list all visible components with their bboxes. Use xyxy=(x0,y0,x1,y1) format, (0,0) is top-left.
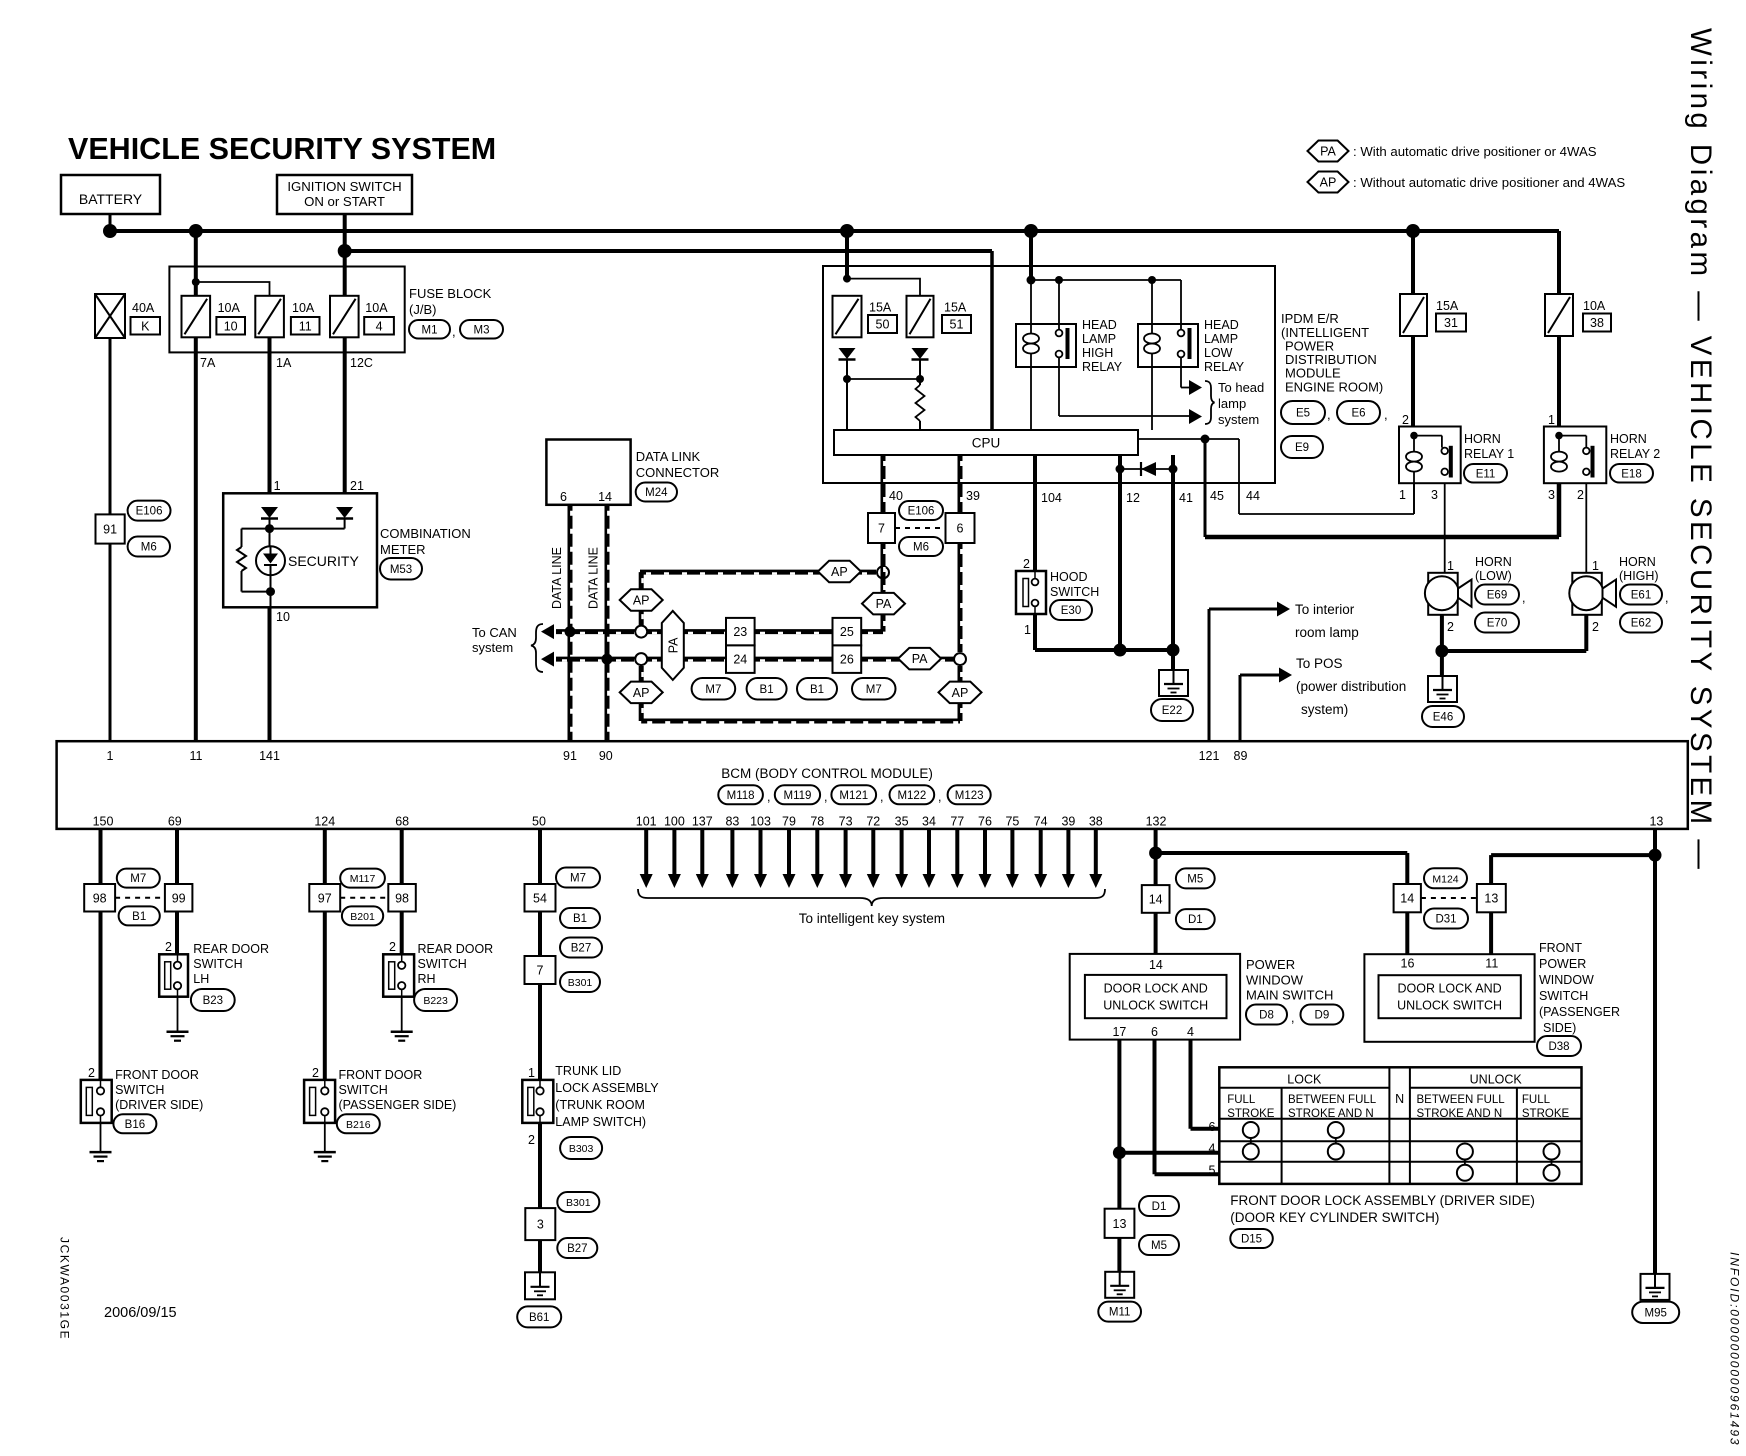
svg-text:RH: RH xyxy=(418,972,436,986)
svg-text:BCM (BODY CONTROL MODULE): BCM (BODY CONTROL MODULE) xyxy=(721,766,933,781)
svg-text:FUSE BLOCK: FUSE BLOCK xyxy=(409,286,492,301)
svg-text:D1: D1 xyxy=(1188,914,1203,926)
svg-text:system: system xyxy=(472,640,513,655)
svg-text:91: 91 xyxy=(563,749,577,763)
svg-text:DATA LINE: DATA LINE xyxy=(550,547,564,609)
svg-text:,: , xyxy=(1384,407,1388,422)
svg-text:1: 1 xyxy=(1548,413,1555,427)
svg-text:D8: D8 xyxy=(1259,1010,1274,1022)
svg-text:,: , xyxy=(1665,591,1668,605)
svg-text:ENGINE ROOM): ENGINE ROOM) xyxy=(1285,380,1383,395)
svg-text:LAMP: LAMP xyxy=(1082,332,1116,346)
svg-text:HORN: HORN xyxy=(1610,432,1647,446)
svg-text:E11: E11 xyxy=(1476,468,1496,480)
svg-text:(LOW): (LOW) xyxy=(1475,569,1512,583)
svg-text:AP: AP xyxy=(633,686,650,700)
svg-text:50: 50 xyxy=(532,815,546,829)
svg-text:N: N xyxy=(1395,1092,1404,1106)
svg-text:B216: B216 xyxy=(346,1119,371,1131)
svg-text:103: 103 xyxy=(750,815,771,829)
svg-text:,: , xyxy=(1291,1011,1294,1025)
svg-text:B1: B1 xyxy=(573,913,587,925)
svg-text:2: 2 xyxy=(1447,620,1454,634)
svg-text:COMBINATION: COMBINATION xyxy=(380,526,471,541)
svg-text:BATTERY: BATTERY xyxy=(79,191,143,207)
svg-text:E5: E5 xyxy=(1296,408,1310,420)
svg-text:lamp: lamp xyxy=(1218,396,1246,411)
svg-text:K: K xyxy=(141,319,150,333)
svg-text:SWITCH: SWITCH xyxy=(418,957,467,971)
svg-text:13: 13 xyxy=(1484,892,1498,906)
svg-text:UNLOCK: UNLOCK xyxy=(1470,1073,1523,1087)
svg-text:B1: B1 xyxy=(132,911,146,923)
svg-text:E9: E9 xyxy=(1295,442,1309,454)
svg-text:1A: 1A xyxy=(276,356,292,370)
svg-text:14: 14 xyxy=(1149,892,1163,906)
svg-text:10: 10 xyxy=(224,319,238,333)
svg-text:DATA LINK: DATA LINK xyxy=(636,449,701,464)
svg-text:2: 2 xyxy=(88,1066,95,1080)
svg-text:To intelligent key system: To intelligent key system xyxy=(799,911,945,926)
svg-text:B303: B303 xyxy=(569,1143,594,1155)
svg-text:WINDOW: WINDOW xyxy=(1539,973,1594,987)
svg-text:D9: D9 xyxy=(1315,1010,1330,1022)
svg-text:FRONT: FRONT xyxy=(1539,941,1582,955)
svg-text:50: 50 xyxy=(876,318,890,332)
svg-text:14: 14 xyxy=(1149,958,1163,972)
svg-text:40: 40 xyxy=(889,489,903,503)
svg-text:To POS: To POS xyxy=(1296,656,1343,671)
svg-text:(DRIVER SIDE): (DRIVER SIDE) xyxy=(115,1098,203,1112)
svg-text:M7: M7 xyxy=(570,873,586,885)
svg-text:31: 31 xyxy=(1444,316,1458,330)
svg-text:AP: AP xyxy=(633,594,650,608)
svg-text:,: , xyxy=(880,790,883,804)
svg-text:B27: B27 xyxy=(571,943,591,955)
svg-text:68: 68 xyxy=(395,815,409,829)
svg-text:B23: B23 xyxy=(203,995,223,1007)
svg-text:M119: M119 xyxy=(783,790,811,802)
svg-text:RELAY: RELAY xyxy=(1204,360,1245,374)
svg-text:98: 98 xyxy=(93,891,107,905)
svg-text:M6: M6 xyxy=(141,542,157,554)
svg-text:(J/B): (J/B) xyxy=(409,302,436,317)
svg-text:SWITCH: SWITCH xyxy=(1539,989,1588,1003)
svg-text:: Without automatic drive posi: : Without automatic drive positioner and… xyxy=(1353,175,1625,190)
svg-text:HEAD: HEAD xyxy=(1082,318,1117,332)
svg-text:(power distribution: (power distribution xyxy=(1296,679,1406,694)
svg-text:2: 2 xyxy=(165,940,172,954)
svg-text:,: , xyxy=(1522,591,1525,605)
svg-text:UNLOCK SWITCH: UNLOCK SWITCH xyxy=(1103,999,1208,1013)
svg-text:15A: 15A xyxy=(944,301,967,315)
svg-text:2: 2 xyxy=(389,940,396,954)
svg-text:141: 141 xyxy=(259,749,280,763)
svg-text:To interior: To interior xyxy=(1295,602,1355,617)
svg-text:AP: AP xyxy=(952,686,969,700)
svg-text:10A: 10A xyxy=(292,301,315,315)
svg-text:WINDOW: WINDOW xyxy=(1246,973,1304,988)
svg-text:M6: M6 xyxy=(913,542,929,554)
svg-text:2: 2 xyxy=(528,1133,535,1147)
svg-text:M124: M124 xyxy=(1432,873,1458,885)
svg-text:REAR DOOR: REAR DOOR xyxy=(418,942,494,956)
svg-text:SECURITY: SECURITY xyxy=(288,553,359,569)
svg-text:90: 90 xyxy=(599,749,613,763)
svg-text:23: 23 xyxy=(733,625,747,639)
svg-text:M7: M7 xyxy=(705,684,721,696)
svg-text:M95: M95 xyxy=(1645,1307,1667,1319)
svg-text:7: 7 xyxy=(878,522,885,536)
svg-text:10A: 10A xyxy=(365,301,388,315)
svg-text:LAMP SWITCH): LAMP SWITCH) xyxy=(555,1115,646,1129)
svg-text:12C: 12C xyxy=(350,356,373,370)
svg-text:To head: To head xyxy=(1218,380,1264,395)
svg-text:3: 3 xyxy=(1548,488,1555,502)
svg-text:HORN: HORN xyxy=(1464,432,1501,446)
svg-text:M123: M123 xyxy=(955,790,984,802)
svg-text:2: 2 xyxy=(1577,488,1584,502)
svg-text:D38: D38 xyxy=(1548,1041,1569,1053)
svg-text:PA: PA xyxy=(876,597,892,611)
svg-text:11: 11 xyxy=(190,749,203,763)
svg-text:POWER: POWER xyxy=(1246,957,1295,972)
svg-text:,: , xyxy=(938,790,941,804)
svg-text:10A: 10A xyxy=(218,301,241,315)
svg-text:MODULE: MODULE xyxy=(1285,366,1341,381)
svg-text:13: 13 xyxy=(1113,1217,1127,1231)
svg-text:HEAD: HEAD xyxy=(1204,318,1239,332)
svg-text:,: , xyxy=(824,790,827,804)
svg-text:6: 6 xyxy=(1209,1120,1216,1134)
svg-text:B301: B301 xyxy=(566,1197,591,1209)
svg-text:,: , xyxy=(767,790,770,804)
svg-text:21: 21 xyxy=(350,479,364,493)
svg-text:MAIN SWITCH: MAIN SWITCH xyxy=(1246,988,1333,1003)
svg-text:B301: B301 xyxy=(568,977,593,989)
svg-text:M118: M118 xyxy=(727,790,755,802)
svg-text:132: 132 xyxy=(1146,815,1167,829)
svg-text:HORN: HORN xyxy=(1475,555,1512,569)
svg-text:38: 38 xyxy=(1590,316,1604,330)
svg-text:M5: M5 xyxy=(1187,873,1203,885)
svg-text:DATA LINE: DATA LINE xyxy=(587,547,601,609)
svg-text:1: 1 xyxy=(274,479,281,493)
svg-text:78: 78 xyxy=(810,815,824,829)
svg-text:CPU: CPU xyxy=(972,436,1001,451)
svg-text:B61: B61 xyxy=(529,1312,549,1324)
svg-text:76: 76 xyxy=(978,815,992,829)
svg-text:D15: D15 xyxy=(1241,1234,1262,1246)
svg-text:LOW: LOW xyxy=(1204,346,1233,360)
svg-text:25: 25 xyxy=(840,625,854,639)
svg-text:LOCK: LOCK xyxy=(1287,1073,1322,1087)
svg-text:JCKWA0031GE: JCKWA0031GE xyxy=(58,1237,72,1340)
svg-text:97: 97 xyxy=(318,891,332,905)
svg-text:15A: 15A xyxy=(1436,299,1459,313)
svg-text:STROKE AND N: STROKE AND N xyxy=(1288,1108,1374,1120)
svg-text:SWITCH: SWITCH xyxy=(193,957,242,971)
svg-text:1: 1 xyxy=(1447,559,1454,573)
svg-text:LOCK ASSEMBLY: LOCK ASSEMBLY xyxy=(555,1081,659,1095)
svg-text:REAR DOOR: REAR DOOR xyxy=(193,942,269,956)
svg-text:17: 17 xyxy=(1112,1025,1126,1039)
svg-text:,: , xyxy=(452,324,456,339)
svg-text:FRONT DOOR: FRONT DOOR xyxy=(115,1068,199,1082)
svg-text:(PASSENGER: (PASSENGER xyxy=(1539,1005,1620,1019)
svg-text:10: 10 xyxy=(276,610,290,624)
svg-text:2: 2 xyxy=(312,1066,319,1080)
svg-text:AP: AP xyxy=(1320,176,1337,190)
svg-text:98: 98 xyxy=(395,891,409,905)
svg-text:73: 73 xyxy=(839,815,853,829)
svg-text:14: 14 xyxy=(598,490,612,504)
svg-text:1: 1 xyxy=(1024,623,1031,637)
svg-text:3: 3 xyxy=(1431,488,1438,502)
svg-text:HORN: HORN xyxy=(1619,555,1656,569)
svg-text:2: 2 xyxy=(1023,557,1030,571)
svg-text:B1: B1 xyxy=(760,684,774,696)
svg-text:39: 39 xyxy=(1061,815,1075,829)
svg-text:6: 6 xyxy=(957,522,964,536)
svg-text:54: 54 xyxy=(533,891,547,905)
svg-text:FULL: FULL xyxy=(1522,1094,1551,1106)
svg-text:72: 72 xyxy=(866,815,880,829)
svg-text:E30: E30 xyxy=(1061,605,1081,617)
svg-text:D1: D1 xyxy=(1152,1201,1167,1213)
svg-text:M122: M122 xyxy=(897,790,926,802)
svg-text:24: 24 xyxy=(733,653,747,667)
svg-text:E61: E61 xyxy=(1631,590,1651,602)
svg-text:B16: B16 xyxy=(125,1119,145,1131)
svg-text:(TRUNK ROOM: (TRUNK ROOM xyxy=(555,1098,645,1112)
svg-text:M5: M5 xyxy=(1151,1240,1167,1252)
svg-text:B223: B223 xyxy=(423,995,448,1007)
svg-text:FULL: FULL xyxy=(1227,1094,1256,1106)
svg-text:FRONT DOOR: FRONT DOOR xyxy=(339,1068,423,1082)
svg-text:M53: M53 xyxy=(390,564,412,576)
svg-text:IGNITION SWITCH: IGNITION SWITCH xyxy=(287,179,401,194)
svg-text:HIGH: HIGH xyxy=(1082,346,1113,360)
svg-text:: With automatic drive positio: : With automatic drive positioner or 4WA… xyxy=(1353,144,1597,159)
svg-text:11: 11 xyxy=(299,319,312,333)
svg-text:89: 89 xyxy=(1234,749,1248,763)
svg-text:1: 1 xyxy=(107,749,114,763)
svg-text:M121: M121 xyxy=(839,790,868,802)
svg-text:room lamp: room lamp xyxy=(1295,625,1359,640)
svg-text:3: 3 xyxy=(537,1218,544,1232)
svg-text:1: 1 xyxy=(1592,559,1599,573)
svg-text:SWITCH: SWITCH xyxy=(1050,585,1099,599)
svg-text:35: 35 xyxy=(895,815,909,829)
svg-text:(PASSENGER SIDE): (PASSENGER SIDE) xyxy=(339,1098,457,1112)
svg-text:To CAN: To CAN xyxy=(472,625,517,640)
svg-text:11: 11 xyxy=(1485,957,1498,971)
svg-text:69: 69 xyxy=(168,815,182,829)
svg-text:10A: 10A xyxy=(1583,299,1606,313)
svg-text:75: 75 xyxy=(1005,815,1019,829)
svg-text:E6: E6 xyxy=(1351,408,1365,420)
svg-text:DOOR LOCK AND: DOOR LOCK AND xyxy=(1104,982,1208,996)
svg-text:B1: B1 xyxy=(810,684,824,696)
svg-text:2: 2 xyxy=(1592,620,1599,634)
svg-text:AP: AP xyxy=(831,565,848,579)
svg-text:,: , xyxy=(1327,407,1331,422)
svg-text:FRONT DOOR LOCK ASSEMBLY (DRIV: FRONT DOOR LOCK ASSEMBLY (DRIVER SIDE) xyxy=(1230,1193,1535,1208)
svg-text:(DOOR KEY CYLINDER SWITCH): (DOOR KEY CYLINDER SWITCH) xyxy=(1230,1210,1439,1225)
svg-text:IPDM E/R: IPDM E/R xyxy=(1281,311,1339,326)
svg-text:83: 83 xyxy=(725,815,739,829)
svg-text:100: 100 xyxy=(664,815,685,829)
svg-text:B201: B201 xyxy=(350,911,375,923)
svg-text:38: 38 xyxy=(1089,815,1103,829)
svg-text:RELAY: RELAY xyxy=(1082,360,1123,374)
svg-text:SWITCH: SWITCH xyxy=(339,1083,388,1097)
svg-text:STROKE: STROKE xyxy=(1227,1108,1275,1120)
svg-text:STROKE AND N: STROKE AND N xyxy=(1417,1108,1503,1120)
svg-text:1: 1 xyxy=(528,1066,535,1080)
svg-text:40A: 40A xyxy=(132,301,155,315)
svg-text:M1: M1 xyxy=(422,324,438,336)
svg-text:150: 150 xyxy=(93,815,114,829)
svg-text:5: 5 xyxy=(1209,1164,1216,1178)
svg-text:E18: E18 xyxy=(1621,468,1641,480)
svg-text:12: 12 xyxy=(1126,491,1140,505)
svg-text:79: 79 xyxy=(782,815,796,829)
svg-text:(HIGH): (HIGH) xyxy=(1619,569,1659,583)
svg-text:PA: PA xyxy=(666,637,680,653)
svg-text:34: 34 xyxy=(922,815,936,829)
svg-text:E106: E106 xyxy=(136,506,163,518)
svg-text:BETWEEN FULL: BETWEEN FULL xyxy=(1417,1094,1506,1106)
svg-text:E106: E106 xyxy=(908,506,935,518)
svg-text:PA: PA xyxy=(912,652,928,666)
svg-text:HOOD: HOOD xyxy=(1050,570,1088,584)
svg-text:LAMP: LAMP xyxy=(1204,332,1238,346)
svg-text:45: 45 xyxy=(1210,489,1224,503)
svg-text:Wiring Diagram — VEHICLE SECUR: Wiring Diagram — VEHICLE SECURITY SYSTEM… xyxy=(1684,28,1717,872)
svg-text:2006/09/15: 2006/09/15 xyxy=(104,1305,177,1321)
svg-text:LH: LH xyxy=(193,972,209,986)
svg-text:DOOR LOCK AND: DOOR LOCK AND xyxy=(1398,982,1502,996)
svg-text:E62: E62 xyxy=(1631,618,1651,630)
svg-text:6: 6 xyxy=(560,490,567,504)
svg-text:121: 121 xyxy=(1199,749,1220,763)
svg-text:B27: B27 xyxy=(567,1243,587,1255)
svg-text:44: 44 xyxy=(1246,489,1260,503)
svg-text:M7: M7 xyxy=(866,684,882,696)
svg-text:system: system xyxy=(1218,412,1259,427)
svg-text:D31: D31 xyxy=(1435,914,1456,926)
svg-text:M3: M3 xyxy=(474,324,490,336)
svg-text:RELAY 1: RELAY 1 xyxy=(1464,447,1514,461)
svg-text:137: 137 xyxy=(692,815,713,829)
svg-text:51: 51 xyxy=(950,318,964,332)
svg-text:39: 39 xyxy=(966,489,980,503)
svg-text:26: 26 xyxy=(840,653,854,667)
svg-text:7A: 7A xyxy=(200,356,216,370)
svg-text:77: 77 xyxy=(950,815,964,829)
svg-text:M7: M7 xyxy=(130,873,146,885)
svg-text:99: 99 xyxy=(172,891,186,905)
svg-text:E22: E22 xyxy=(1162,705,1182,717)
svg-text:M117: M117 xyxy=(350,873,376,885)
svg-text:ON or START: ON or START xyxy=(304,194,385,209)
svg-text:41: 41 xyxy=(1179,491,1193,505)
svg-text:M24: M24 xyxy=(645,487,668,499)
svg-text:4: 4 xyxy=(376,319,383,333)
svg-text:VEHICLE SECURITY SYSTEM: VEHICLE SECURITY SYSTEM xyxy=(68,132,496,166)
svg-text:4: 4 xyxy=(1187,1025,1194,1039)
svg-text:UNLOCK SWITCH: UNLOCK SWITCH xyxy=(1397,999,1502,1013)
svg-text:104: 104 xyxy=(1041,491,1062,505)
svg-text:74: 74 xyxy=(1034,815,1048,829)
svg-text:INFOID:0000000000961493: INFOID:0000000000961493 xyxy=(1728,1252,1742,1446)
svg-text:E46: E46 xyxy=(1433,712,1453,724)
svg-text:BETWEEN FULL: BETWEEN FULL xyxy=(1288,1094,1377,1106)
svg-text:14: 14 xyxy=(1400,892,1414,906)
svg-text:STROKE: STROKE xyxy=(1522,1108,1570,1120)
svg-text:91: 91 xyxy=(103,523,117,537)
svg-text:SIDE): SIDE) xyxy=(1543,1021,1576,1035)
svg-text:SWITCH: SWITCH xyxy=(115,1083,164,1097)
svg-text:6: 6 xyxy=(1151,1025,1158,1039)
svg-text:124: 124 xyxy=(314,815,335,829)
svg-text:7: 7 xyxy=(537,964,544,978)
svg-text:2: 2 xyxy=(1402,413,1409,427)
svg-text:16: 16 xyxy=(1401,957,1415,971)
svg-text:CONNECTOR: CONNECTOR xyxy=(636,465,720,480)
svg-text:1: 1 xyxy=(1399,488,1406,502)
svg-text:METER: METER xyxy=(380,542,426,557)
svg-text:15A: 15A xyxy=(869,301,892,315)
svg-text:101: 101 xyxy=(636,815,657,829)
svg-text:RELAY 2: RELAY 2 xyxy=(1610,447,1660,461)
svg-text:13: 13 xyxy=(1649,815,1663,829)
svg-text:TRUNK LID: TRUNK LID xyxy=(555,1064,621,1078)
svg-text:E70: E70 xyxy=(1487,618,1507,630)
svg-text:POWER: POWER xyxy=(1539,957,1586,971)
svg-text:system): system) xyxy=(1301,702,1348,717)
svg-text:E69: E69 xyxy=(1487,590,1507,602)
svg-text:M11: M11 xyxy=(1109,1307,1131,1319)
svg-text:PA: PA xyxy=(1320,145,1336,159)
svg-text:4: 4 xyxy=(1209,1142,1216,1156)
